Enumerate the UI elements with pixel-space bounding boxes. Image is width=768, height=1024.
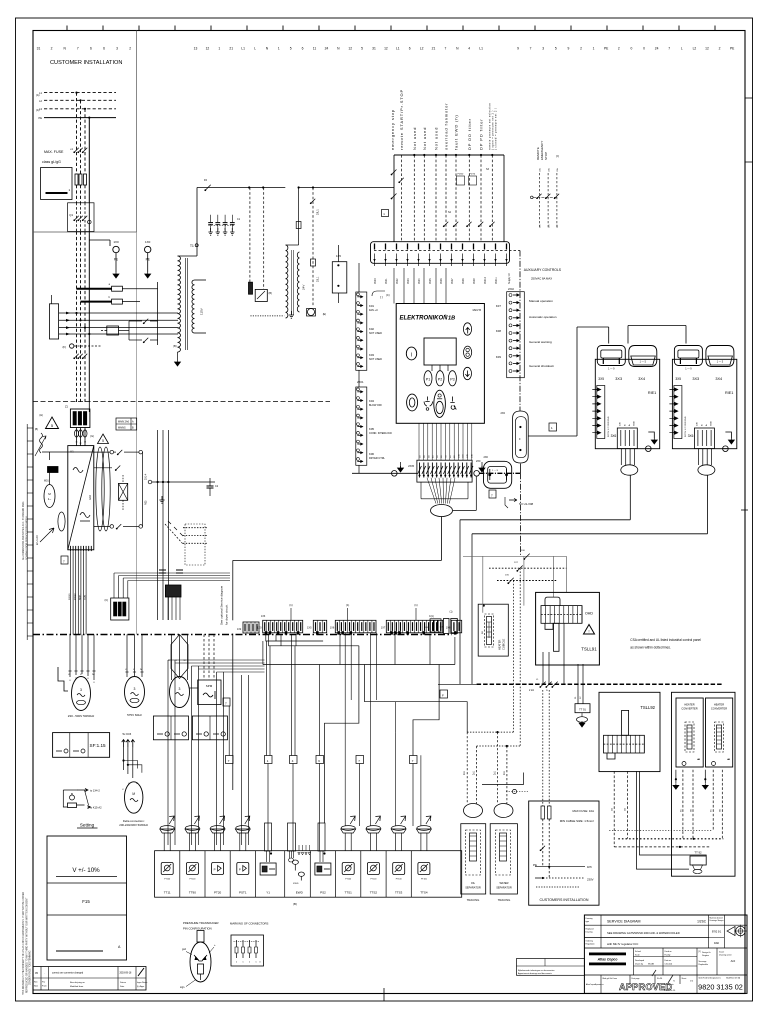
component TT11	[161, 863, 173, 875]
svg-text:1/2SC: 1/2SC	[697, 919, 707, 923]
svg-text:1D: 1D	[420, 455, 422, 458]
svg-text:2D: 2D	[424, 455, 426, 458]
svg-text:HEATER: HEATER	[684, 703, 694, 707]
stepped wiring under strips	[266, 634, 359, 645]
terminal circle right	[512, 789, 516, 793]
svg-text:1X5: 1X5	[307, 627, 312, 630]
RIE U2 cable ellipse	[621, 465, 638, 475]
svg-text:P1: P1	[426, 377, 430, 381]
svg-text:V1: V1	[80, 674, 82, 676]
fan motor M1 capacitor	[48, 467, 59, 473]
oil separator ellipse	[464, 804, 483, 818]
svg-text:230...500V 50/60Hz: 230...500V 50/60Hz	[68, 714, 95, 718]
svg-text:1 — 9: 1 — 9	[492, 470, 499, 472]
svg-text:(H): (H)	[39, 413, 43, 417]
svg-text:2x1: 2x1	[473, 770, 476, 775]
svg-text:to K15-A2: to K15-A2	[90, 806, 102, 810]
svg-text:Par: Par	[42, 982, 45, 984]
svg-text:Developed: Developed	[635, 960, 644, 962]
dotted bus upper	[467, 731, 513, 733]
svg-text:MIN CABLE SIZE: 1.5mm²: MIN CABLE SIZE: 1.5mm²	[560, 819, 594, 823]
cubicle dashed boundary top	[33, 401, 330, 403]
svg-text:(A): (A)	[36, 108, 40, 112]
TT91 sensor	[575, 704, 590, 713]
svg-text:9D: 9D	[454, 455, 456, 458]
svg-text:Issuer: Issuer	[719, 951, 725, 954]
svg-text:PT100: PT100	[164, 879, 171, 881]
svg-text:TSLL91: TSLL91	[581, 647, 597, 652]
heater cubicle left	[478, 604, 508, 656]
title row3	[584, 947, 747, 949]
input wires k	[445, 155, 447, 242]
svg-text:(1): (1)	[450, 611, 453, 614]
svg-text:R2 5V 1 2 3 R3 GND: R2 5V 1 2 3 R3 GND	[608, 416, 610, 437]
RIE module U3 box	[672, 359, 736, 448]
svg-text:24V: 24V	[696, 422, 698, 426]
svg-text:See optional Service diagram: See optional Service diagram	[220, 585, 224, 625]
svg-text:PT100: PT100	[189, 879, 196, 881]
customer installation boundary	[136, 31, 138, 233]
svg-text:PE: PE	[39, 116, 43, 120]
reference box F	[440, 690, 448, 698]
svg-text:115V: 115V	[200, 308, 204, 315]
svg-text:PT100: PT100	[421, 879, 428, 881]
svg-text:10C: 10C	[540, 224, 542, 228]
svg-text:12: 12	[348, 47, 352, 51]
svg-text:Facility: Facility	[665, 954, 671, 957]
panel icon wrench	[450, 397, 456, 410]
svg-text:Scale: Scale	[635, 955, 640, 957]
rectifier block V1	[255, 289, 267, 301]
dotted dryer lines	[183, 527, 208, 529]
svg-text:(1): (1)	[289, 603, 292, 607]
wire riser 1X2 strip right	[232, 560, 234, 620]
control wire bus 155	[394, 154, 504, 156]
appurtenant docs box	[517, 959, 585, 976]
RIE U2 connector 3X3	[597, 346, 625, 366]
svg-text:0V04: 0V04	[418, 278, 421, 284]
svg-text:Y1: Y1	[266, 891, 270, 895]
sensor drop TT90	[191, 666, 193, 845]
svg-text:Checked: Checked	[665, 964, 672, 966]
wire module cable verticals	[459, 520, 461, 685]
choke L1	[119, 483, 128, 500]
connector 1X1	[371, 242, 510, 264]
sensor drop PST1	[241, 675, 243, 845]
svg-text:Datum: Datum	[120, 981, 126, 984]
svg-text:P2: P2	[438, 377, 442, 381]
heater converter 2	[706, 698, 733, 767]
svg-text:W: W	[136, 783, 138, 785]
svg-text:31: 31	[372, 47, 376, 51]
wires from steps to ref boxes	[266, 641, 268, 756]
dotted circuit 3	[524, 554, 529, 559]
component PST1	[229, 851, 231, 898]
svg-text:1X0: 1X0	[113, 240, 119, 244]
component PT20	[204, 851, 206, 898]
svg-text:Not used: Not used	[422, 127, 427, 150]
dotted bus heavy	[618, 838, 723, 840]
panel display	[424, 338, 456, 365]
TSLL91 box	[536, 592, 600, 665]
svg-text:FAN +U: FAN +U	[369, 309, 378, 312]
svg-text:12: 12	[705, 47, 709, 51]
svg-text:0V010: 0V010	[69, 593, 71, 600]
transformer T2 secondary	[297, 252, 299, 312]
frame tick bottom centre	[383, 988, 385, 1001]
delta motor junctions	[123, 748, 125, 770]
wire vertical collector	[157, 282, 159, 345]
svg-text:5C: 5C	[681, 809, 683, 812]
reference box 7	[489, 490, 496, 498]
svg-text:1 --- 5: 1 --- 5	[717, 361, 724, 364]
svg-text:WvdB: WvdB	[648, 964, 654, 966]
bus 684 switches	[540, 682, 545, 687]
svg-text:1B: 1B	[448, 316, 455, 322]
RIE module U2 box	[595, 359, 659, 448]
frame tick right middle	[741, 509, 748, 511]
dip switch S1	[111, 598, 129, 620]
svg-text:6: 6	[90, 47, 92, 51]
wire RIE2 cable down	[707, 475, 709, 534]
svg-text:K06: K06	[369, 452, 374, 456]
svg-text:5x K15: 5x K15	[123, 732, 132, 736]
svg-text:TRACING: TRACING	[498, 898, 511, 902]
svg-text:4D: 4D	[433, 455, 435, 458]
svg-text:CONVERTER: CONVERTER	[681, 707, 697, 711]
varistor R20	[40, 433, 43, 453]
svg-text:OHD: OHD	[585, 612, 593, 616]
svg-text:TSLL92: TSLL92	[640, 705, 655, 710]
top frame division ticks	[66, 26, 68, 31]
svg-text:3X4: 3X4	[715, 377, 722, 381]
component Y1	[255, 851, 257, 898]
wire inverter right vertical	[142, 452, 144, 526]
svg-text:9: 9	[567, 47, 569, 51]
component EWD	[284, 851, 286, 898]
svg-text:NOT USED: NOT USED	[369, 358, 382, 361]
svg-text:Blad gel./Val. from: Blad gel./Val. from	[603, 978, 618, 980]
transformer core lines	[185, 258, 187, 350]
svg-text:2X1-4: 2X1-4	[145, 473, 148, 480]
customers wiring	[542, 819, 544, 867]
wire panel ground bus	[352, 472, 417, 474]
supply bus L1	[44, 92, 116, 94]
svg-text:31: 31	[76, 442, 78, 444]
svg-text:REM...: REM...	[80, 593, 82, 600]
hexagon cable M4	[171, 635, 188, 679]
svg-text:ZONDER ONZE TOESTEMMING: ZONDER ONZE TOESTEMMING	[30, 950, 32, 985]
choke L2 block	[165, 585, 181, 597]
svg-text:General shutdown: General shutdown	[529, 364, 554, 368]
RIE U3 cable ellipse	[698, 465, 715, 475]
svg-text:1: 1	[593, 47, 595, 51]
component TTS3	[385, 851, 387, 898]
panel dashed boundary bottom	[33, 634, 452, 636]
svg-text:3: 3	[80, 688, 82, 692]
svg-text:1X7: 1X7	[381, 627, 386, 630]
svg-text:1X3: 1X3	[261, 615, 266, 618]
svg-text:Automatic operation: Automatic operation	[529, 315, 557, 319]
svg-text:13: 13	[194, 47, 198, 51]
svg-text:P: P	[239, 868, 241, 872]
svg-text:24V: 24V	[302, 285, 306, 290]
svg-text:%: %	[673, 981, 675, 983]
svg-text:(C): (C)	[386, 293, 390, 297]
svg-text:1~: 1~	[48, 497, 52, 501]
svg-text:ALL DIMENSIONS AND NOTES ACC.: ALL DIMENSIONS AND NOTES ACC. STANDARD D…	[22, 501, 25, 560]
svg-text:F15: F15	[82, 899, 90, 904]
svg-text:21: 21	[432, 47, 436, 51]
svg-text:1X2: 1X2	[237, 628, 242, 631]
customers installation box	[529, 801, 599, 905]
svg-text:5: 5	[361, 47, 363, 51]
svg-text:Sh./Bl.: Sh./Bl.	[657, 978, 663, 980]
svg-text:Ident.Fiveld tw/Designation nr: Ident.Fiveld tw/Designation nr.	[699, 977, 722, 980]
wires TTS sensor feeds	[344, 633, 346, 700]
filter caps mid	[159, 569, 166, 571]
svg-text:ACI: ACI	[731, 959, 736, 963]
dotted bus light	[609, 830, 711, 832]
svg-text:CUSTOMER INSTALLATION: CUSTOMER INSTALLATION	[50, 60, 122, 66]
svg-text:7: 7	[444, 47, 446, 51]
svg-text:as shown within dotted lines.: as shown within dotted lines.	[630, 646, 671, 650]
svg-text:Q1: Q1	[69, 213, 73, 217]
svg-text:U1: U1	[70, 450, 74, 454]
svg-text:to U1-X0: to U1-X0	[36, 535, 39, 545]
svg-text:COM: COM	[85, 595, 87, 600]
svg-text:( closed = pressure set 2 ): ( closed = pressure set 2 )	[495, 108, 498, 150]
svg-text:TT90: TT90	[189, 891, 196, 895]
dashed bus low	[614, 846, 710, 848]
wire M4 to SPM	[190, 687, 198, 689]
svg-text:MAINS: MAINS	[118, 427, 126, 430]
svg-text:3X5: 3X5	[598, 377, 604, 381]
svg-text:(1): (1)	[346, 603, 349, 607]
delta motor M5	[125, 782, 143, 813]
panel wires to 1X1	[393, 268, 395, 304]
title block outline	[584, 915, 747, 993]
svg-text:Material allowed: Material allowed	[710, 916, 723, 919]
svg-text:AtlasCopcoAirpower nv: AtlasCopcoAirpower nv	[586, 983, 604, 986]
svg-text:Design t.b: Design t.b	[702, 951, 711, 954]
TSLL92 wires down	[613, 771, 615, 847]
fuse box F1	[41, 168, 72, 200]
oil separator box	[461, 824, 486, 894]
svg-text:DRYER CTRL: DRYER CTRL	[369, 457, 386, 460]
warning triangle 5	[46, 417, 59, 429]
svg-text:0: 0	[630, 47, 632, 51]
wire 24V rail	[157, 430, 159, 620]
motor M3 wires	[126, 635, 128, 678]
svg-text:6: 6	[103, 47, 105, 51]
svg-text:New: New	[34, 986, 39, 988]
svg-text:SEPARATOR: SEPARATOR	[496, 886, 512, 890]
svg-text:PT100: PT100	[345, 879, 352, 881]
water separator ellipse	[494, 804, 513, 818]
wire PS2 step	[325, 646, 359, 823]
svg-text:NOT USED: NOT USED	[369, 332, 382, 335]
svg-text:0V07: 0V07	[451, 278, 454, 284]
fan motor M1	[44, 485, 55, 508]
svg-text:2X05: 2X05	[408, 465, 414, 468]
wire PE drop	[88, 118, 90, 203]
terminal strip pin feet	[265, 631, 268, 634]
svg-text:2x1: 2x1	[503, 770, 506, 775]
node bus taps	[248, 186, 250, 188]
TSLL92 box	[599, 692, 660, 771]
svg-text:for dryer circuit.: for dryer circuit.	[225, 604, 229, 625]
emergency stop chain	[393, 155, 395, 242]
svg-text:GND: GND	[633, 421, 635, 426]
svg-text:L1: L1	[396, 47, 400, 51]
wire RIE1 cable down	[629, 475, 631, 520]
svg-text:G02: G02	[88, 495, 92, 500]
branch wire K11	[249, 188, 251, 285]
panel button up	[463, 323, 471, 335]
component TTS2	[360, 851, 362, 898]
connector 1X1 internal dashed	[374, 250, 520, 252]
svg-text:Drawing: Drawing	[586, 931, 593, 934]
svg-text:STOP: STOP	[544, 152, 548, 160]
svg-text:3X6: 3X6	[688, 434, 694, 438]
svg-text:Not used: Not used	[434, 127, 439, 150]
component PS2	[309, 851, 311, 898]
svg-text:School: School	[635, 951, 641, 953]
svg-text:RIE1: RIE1	[725, 391, 733, 395]
wire L2 drop	[80, 100, 82, 174]
wire 2X03 to modules	[519, 464, 521, 474]
pressure transducer symbol	[190, 942, 211, 982]
svg-text:0V08: 0V08	[462, 278, 465, 284]
transformer earth	[177, 352, 179, 360]
svg-text:Drawings Stamps: Drawings Stamps	[710, 919, 724, 922]
component TT90	[179, 851, 181, 898]
svg-text:DP PD filter: DP PD filter	[479, 118, 484, 150]
contactor K1 coil	[107, 326, 119, 335]
TSLL92 connector	[604, 735, 645, 753]
svg-text:SPM: SPM	[206, 684, 213, 688]
svg-text:SEPARATOR: SEPARATOR	[465, 886, 481, 890]
svg-text:10D: 10D	[458, 454, 460, 458]
svg-text:L: L	[254, 47, 256, 51]
svg-text:32: 32	[80, 443, 82, 445]
wire SPM to ref7	[228, 706, 230, 756]
revision table	[33, 967, 146, 991]
relay K11 coil	[308, 309, 315, 316]
svg-text:®: ®	[445, 314, 447, 318]
wire TTS4 step	[413, 665, 439, 756]
svg-text:11: 11	[313, 47, 317, 51]
step bus main	[263, 664, 455, 666]
wire 2X02 feed	[358, 263, 360, 292]
option box pair B	[192, 716, 227, 740]
node PE tap	[88, 117, 90, 119]
connector 2X02 strip	[356, 292, 367, 370]
svg-text:0V010: 0V010	[484, 276, 487, 284]
svg-text:R2 5V 1 2 3 R3 GND: R2 5V 1 2 3 R3 GND	[685, 416, 687, 437]
svg-text:24V: 24V	[619, 422, 621, 426]
svg-text:EWD: EWD	[293, 883, 299, 885]
wire TTS3 junction	[395, 702, 397, 732]
title bottom band	[584, 974, 747, 976]
svg-text:3X3: 3X3	[615, 377, 622, 381]
svg-text:3X6: 3X6	[611, 434, 617, 438]
customers fuse symbols	[541, 806, 545, 819]
ground panel left	[400, 462, 402, 468]
svg-text:K03: K03	[369, 353, 374, 357]
svg-text:Vervangs: Vervangs	[699, 960, 707, 963]
svg-text:1X8: 1X8	[446, 627, 451, 630]
svg-text:33: 33	[84, 442, 86, 444]
svg-text:SEE DRAWING GA75/90VSD 200: SEE DRAWING GA75/90VSD 2003 AIR- & WATER…	[607, 931, 680, 935]
svg-text:!: !	[589, 630, 590, 634]
reference boxes row	[226, 756, 234, 764]
svg-text:sign.: sign.	[180, 986, 185, 989]
svg-text:L2: L2	[420, 47, 424, 51]
reference box 1	[549, 423, 557, 431]
svg-text:4: 4	[468, 47, 470, 51]
sensor drop PT20	[216, 672, 218, 845]
terminal CT50	[430, 619, 441, 632]
svg-text:3: 3	[116, 47, 118, 51]
svg-text:Beschrijving an: Beschrijving an	[70, 981, 86, 984]
svg-text:2X02: 2X02	[508, 288, 514, 291]
svg-text:0V05: 0V05	[429, 278, 432, 284]
svg-text:1X6: 1X6	[330, 627, 335, 630]
svg-text:1 — 9: 1 — 9	[608, 368, 615, 371]
svg-text:2: 2	[618, 47, 620, 51]
vertical from dsub	[519, 473, 521, 556]
svg-text:2: 2	[51, 47, 53, 51]
svg-text:PRESSURE TRANSDUCER: PRESSURE TRANSDUCER	[183, 921, 219, 925]
SPM wires dashed	[203, 635, 205, 681]
svg-text:2: 2	[580, 47, 582, 51]
cable ellipse under 2X05	[431, 505, 453, 517]
RIE U3 connector 3X3	[674, 346, 702, 366]
component strip outline	[155, 851, 462, 898]
svg-text:TTS4: TTS4	[420, 891, 428, 895]
svg-text:0V00: 0V00	[374, 278, 377, 284]
terminal 2X05 skirt	[421, 482, 468, 499]
wire phase drops to converter	[76, 232, 78, 403]
svg-text:CUBICLE: CUBICLE	[502, 638, 506, 650]
inverter mid contact row	[94, 467, 112, 469]
RIE U3 earth	[725, 432, 731, 438]
dotted link to earth	[250, 315, 284, 317]
heater converter 1	[676, 698, 703, 767]
panel button stop	[434, 390, 446, 417]
svg-text:fault EWD (h): fault EWD (h)	[454, 114, 459, 150]
fuse L1	[75, 174, 78, 185]
svg-text:L2: L2	[693, 47, 697, 51]
svg-text:R03: R03	[145, 500, 148, 505]
container wire TSLL91 group	[463, 556, 566, 612]
wire R1 to contact	[122, 288, 157, 290]
panel to 2X05 stubs	[418, 423, 420, 460]
svg-text:ELEKTRONIKON: ELEKTRONIKON	[400, 316, 449, 322]
svg-text:F: F	[442, 694, 444, 698]
capacitor filter group	[208, 225, 235, 227]
svg-text:5: 5	[555, 47, 557, 51]
svg-text:230V: 230V	[587, 878, 594, 882]
svg-text:Not used: Not used	[412, 127, 417, 150]
svg-text:DP DD filter: DP DD filter	[467, 118, 472, 150]
wire through 2X04	[479, 472, 520, 474]
panel icon voltage	[424, 397, 432, 407]
wire TT91 pair	[577, 664, 579, 704]
marking of connectors box	[231, 935, 264, 966]
